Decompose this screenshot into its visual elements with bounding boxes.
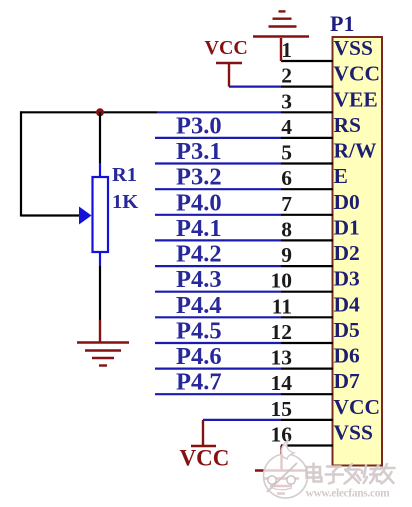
pin 8 name D1 — [334, 215, 360, 239]
value label 1K — [112, 191, 138, 213]
svg-text:13: 13 — [271, 346, 293, 370]
svg-text:10: 10 — [271, 269, 293, 293]
wire P3.2 — [155, 188, 281, 190]
pin 10 lead — [281, 291, 333, 293]
label R1 — [112, 164, 137, 186]
svg-text:P4.6: P4.6 — [176, 343, 222, 370]
pin 16 number — [271, 423, 293, 447]
ground symbol at pin 16 — [255, 471, 307, 494]
svg-text:R/W: R/W — [334, 139, 378, 163]
svg-text:P3.1: P3.1 — [176, 138, 222, 165]
label VCC (top) — [205, 37, 248, 59]
watermark text shao (burn) — [362, 465, 381, 483]
wire P4.6 — [155, 368, 281, 370]
pin 1 lead — [281, 60, 333, 62]
pin 11 number — [272, 294, 292, 318]
svg-text:12: 12 — [271, 320, 293, 344]
watermark text dian (electron) — [307, 464, 322, 482]
pin 14 number — [271, 371, 293, 395]
svg-text:P4.1: P4.1 — [176, 215, 222, 242]
svg-text:VEE: VEE — [334, 87, 378, 111]
svg-text:P4.2: P4.2 — [176, 241, 222, 268]
wire pin15 to VCC (bottom) — [203, 419, 281, 421]
wire P4.7 — [155, 393, 281, 395]
wiper arrow of R1 — [79, 207, 92, 225]
pin 11 name D4 — [334, 292, 361, 316]
svg-text:P1: P1 — [330, 11, 354, 36]
svg-text:P4.4: P4.4 — [176, 292, 222, 319]
pin 1 name VSS — [334, 36, 373, 60]
svg-text:VSS: VSS — [334, 421, 373, 445]
net label P4.1 — [176, 215, 222, 242]
pin 12 name D5 — [334, 318, 360, 342]
svg-text:5: 5 — [281, 141, 292, 165]
svg-text:VSS: VSS — [334, 36, 373, 60]
pin 11 lead — [281, 316, 333, 318]
ground symbol at pin 1 — [253, 11, 309, 61]
svg-text:11: 11 — [272, 294, 292, 318]
svg-text:R1: R1 — [112, 164, 137, 186]
pin 8 lead — [281, 239, 333, 241]
svg-text:9: 9 — [281, 243, 292, 267]
wire P4.5 — [155, 342, 281, 344]
pin 12 number — [271, 320, 293, 344]
svg-text:P4.5: P4.5 — [176, 318, 222, 345]
pin 9 name D2 — [334, 241, 360, 265]
pin 2 lead — [281, 85, 333, 87]
svg-text:VCC: VCC — [205, 37, 248, 59]
pin 2 name VCC — [334, 62, 381, 86]
net label P3.1 — [176, 138, 222, 165]
pin 14 lead — [281, 393, 333, 395]
svg-text:D6: D6 — [334, 344, 361, 368]
net label P4.2 — [176, 241, 222, 268]
svg-text:16: 16 — [271, 423, 293, 447]
wire P4.0 — [155, 214, 281, 216]
pin 13 name D6 — [334, 344, 361, 368]
svg-text:P4.3: P4.3 — [176, 266, 222, 293]
svg-text:P4.0: P4.0 — [176, 189, 222, 216]
net label P3.2 — [176, 164, 222, 191]
power symbol VCC (bottom) — [191, 420, 216, 446]
wire pin2 to VCC — [229, 85, 281, 87]
power symbol VCC (top) — [216, 63, 242, 87]
svg-text:www.elecfans.com: www.elecfans.com — [306, 488, 391, 500]
svg-text:D0: D0 — [334, 190, 360, 214]
svg-text:14: 14 — [271, 371, 293, 395]
net label P4.6 — [176, 343, 222, 370]
pin 9 lead — [281, 265, 333, 267]
svg-text:3: 3 — [281, 89, 292, 113]
pin 15 lead — [281, 419, 333, 421]
svg-text:E: E — [334, 164, 348, 188]
pin 9 number — [281, 243, 292, 267]
wire P4.4 — [155, 316, 281, 318]
junction dot node VEE — [96, 108, 104, 116]
wire VEE net (pin3 long horizontal) — [21, 111, 281, 113]
net label P4.3 — [176, 266, 222, 293]
svg-text:7: 7 — [281, 192, 292, 216]
resistor R1 body (potentiometer) — [93, 177, 109, 252]
pin 7 lead — [281, 214, 333, 216]
wire P3.1 — [155, 162, 281, 164]
pin 6 number — [281, 166, 292, 190]
pin 7 number — [281, 192, 292, 216]
wire pin16 to ground — [280, 446, 282, 471]
pin 13 lead — [281, 368, 333, 370]
wire R1 bottom to ground — [99, 252, 101, 342]
pin 15 number — [271, 397, 293, 421]
pin 6 name E — [334, 164, 348, 188]
wire P4.1 — [155, 239, 281, 241]
pin 14 name D7 — [334, 369, 361, 393]
pin 5 name R/W — [334, 139, 378, 163]
pin 10 name D3 — [334, 267, 361, 291]
wire P3.0 — [155, 137, 281, 139]
pin 4 name RS — [334, 113, 362, 137]
pin 16 name VSS — [334, 421, 373, 445]
wire P4.3 — [155, 291, 281, 293]
svg-text:VCC: VCC — [334, 395, 381, 419]
connector P1 refdes label — [330, 11, 354, 36]
pin 12 lead — [281, 342, 333, 344]
svg-text:D4: D4 — [334, 292, 361, 316]
wire wiper horizontal — [21, 214, 80, 216]
svg-text:6: 6 — [281, 166, 292, 190]
pin 7 name D0 — [334, 190, 360, 214]
svg-text:VCC: VCC — [180, 446, 230, 471]
watermark text www.elecfans.com — [306, 488, 391, 500]
net label P4.0 — [176, 189, 222, 216]
pin 3 name VEE — [334, 87, 378, 111]
watermark text fa (emit) — [345, 464, 361, 484]
pin 4 lead — [281, 137, 333, 139]
pin 1 number — [281, 38, 292, 62]
pin 15 name VCC — [334, 395, 381, 419]
svg-text:P3.0: P3.0 — [176, 112, 222, 139]
svg-text:P4.7: P4.7 — [176, 369, 222, 396]
pin 13 number — [271, 346, 293, 370]
svg-text:D2: D2 — [334, 241, 360, 265]
watermark text you (friend) — [381, 464, 395, 484]
svg-text:D5: D5 — [334, 318, 360, 342]
pin 8 number — [281, 217, 292, 241]
svg-text:VCC: VCC — [334, 62, 381, 86]
pin 3 number — [281, 89, 292, 113]
pin 10 number — [271, 269, 293, 293]
svg-text:4: 4 — [281, 115, 292, 139]
svg-text:15: 15 — [271, 397, 293, 421]
pin 2 number — [281, 64, 292, 88]
pin 6 lead — [281, 188, 333, 190]
ground symbol below R1 — [77, 343, 129, 366]
pin 16 lead — [281, 444, 333, 446]
svg-text:P3.2: P3.2 — [176, 164, 222, 191]
label VCC (bottom) — [180, 446, 230, 471]
svg-text:D7: D7 — [334, 369, 361, 393]
svg-text:2: 2 — [281, 64, 292, 88]
svg-text:1K: 1K — [112, 191, 138, 213]
svg-text:1: 1 — [281, 38, 292, 62]
svg-text:8: 8 — [281, 217, 292, 241]
wire P4.2 — [155, 265, 281, 267]
net label P4.4 — [176, 292, 222, 319]
net label P4.7 — [176, 369, 222, 396]
watermark logo circle — [264, 440, 308, 498]
svg-text:D3: D3 — [334, 267, 361, 291]
wire junction to R1 top — [99, 112, 101, 177]
watermark text zi (child) — [326, 467, 344, 484]
pin 4 number — [281, 115, 292, 139]
svg-text:RS: RS — [334, 113, 362, 137]
wire left loop vertical — [20, 111, 22, 216]
net label P4.5 — [176, 318, 222, 345]
svg-text:D1: D1 — [334, 215, 360, 239]
pin 5 number — [281, 141, 292, 165]
pin 3 lead — [281, 111, 333, 113]
connector P1 body — [333, 37, 383, 466]
net label P3.0 — [176, 112, 222, 139]
pin 5 lead — [281, 162, 333, 164]
